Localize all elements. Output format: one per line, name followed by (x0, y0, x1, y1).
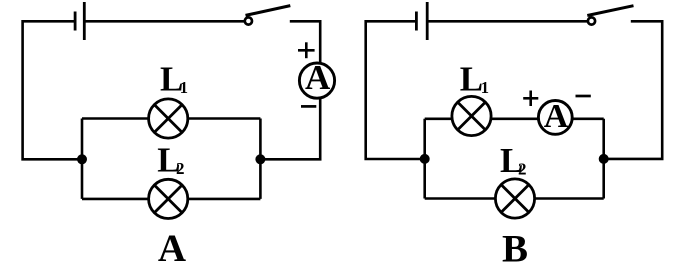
wire: switch to right rail down to right junction (circuit B) (604, 21, 663, 159)
wire: top branch right segment from lamp L1 (circuit A) (188, 117, 261, 120)
svg-text:A: A (544, 98, 569, 135)
wire: ammeter bottom to right junction (circuit A) (260, 99, 320, 160)
wire: left rail from battery negative down to left junction (circuit A) (23, 21, 82, 159)
svg-text:2: 2 (518, 160, 527, 179)
label: plus terminal of ammeter (circuit B) (523, 91, 538, 107)
svg-text:B: B (502, 227, 528, 263)
battery negative plate (circuit B) (415, 12, 418, 31)
switch S lever arm (circuit B) (587, 6, 633, 16)
wire: left rail from battery negative down to left junction (circuit B) (366, 21, 425, 159)
svg-text:A: A (305, 58, 331, 97)
label L2 (circuit B) (500, 141, 527, 180)
lamp L1 (circuit B) (452, 96, 491, 135)
lamp L1 (circuit A) (149, 99, 188, 138)
svg-text:2: 2 (176, 159, 185, 178)
wire: bottom branch left segment to lamp L2 (circuit B) (425, 197, 496, 200)
battery negative plate (circuit A) (74, 12, 77, 31)
battery positive plate (circuit A) (83, 2, 86, 40)
label: caption B (circuit B) (502, 227, 528, 263)
svg-text:1: 1 (481, 78, 489, 97)
node: left junction dot (circuit B) (420, 154, 430, 164)
label: caption A (circuit A) (158, 227, 186, 263)
wire: top branch left segment to lamp L1 (circuit B) (425, 118, 452, 121)
wire: parallel box left vertical (circuit B) (423, 119, 426, 199)
ammeter A1 circle (circuit A) (299, 63, 334, 98)
wire: bottom branch left segment to lamp L2 (circuit A) (82, 198, 149, 201)
label: minus terminal of ammeter (circuit B) (576, 95, 591, 98)
wire: battery positive to switch pivot (circuit B) (428, 20, 587, 23)
wire: bottom branch right segment from lamp L2 (circuit B) (534, 197, 604, 200)
label L2 (circuit A) (157, 140, 184, 179)
wire: top branch right segment ammeter to box right (circuit B) (572, 118, 604, 121)
wire: parallel box left vertical (circuit A) (81, 119, 84, 199)
svg-text:L: L (460, 59, 483, 98)
label L1 (circuit B) (460, 59, 489, 98)
wire: bottom branch right segment from lamp L2 (circuit A) (188, 198, 261, 201)
ammeter A2 letter A (circuit B) (544, 98, 569, 135)
label: minus terminal of ammeter (circuit A) (301, 105, 316, 108)
wire: battery positive to switch pivot (circuit A) (86, 20, 245, 23)
node: right junction dot (circuit A) (255, 154, 265, 164)
battery positive plate (circuit B) (426, 2, 429, 40)
label L1 (circuit A) (160, 59, 188, 98)
wire: top branch middle segment lamp L1 to ammeter (circuit B) (491, 118, 539, 121)
wire: parallel box right vertical (circuit A) (259, 119, 262, 199)
wire: parallel box right vertical (circuit B) (602, 119, 605, 199)
lamp L2 (circuit A) (149, 179, 188, 218)
wire: switch to ammeter top (circuit A) (290, 21, 320, 62)
node: right junction dot (circuit B) (599, 154, 609, 164)
svg-text:1: 1 (180, 78, 188, 97)
node: left junction dot (circuit A) (77, 154, 87, 164)
label: plus terminal of ammeter (circuit A) (298, 42, 315, 58)
switch S pivot circle (circuit B) (588, 17, 595, 24)
svg-text:A: A (158, 227, 186, 263)
switch S pivot circle (circuit A) (245, 17, 252, 24)
lamp L2 (circuit B) (495, 179, 534, 218)
wire: top branch left segment to lamp L1 (circuit A) (82, 117, 149, 120)
ammeter A1 letter A (circuit A) (305, 58, 331, 97)
switch S lever arm (circuit A) (246, 6, 291, 16)
ammeter A2 circle (circuit B) (538, 101, 572, 135)
